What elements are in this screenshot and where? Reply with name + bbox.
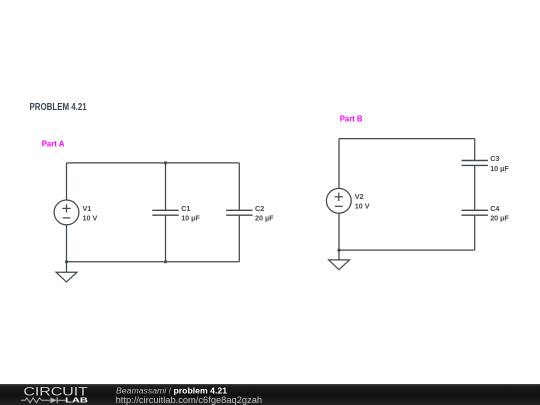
wire: V1 bottom lead	[66, 225, 68, 262]
svg-text:10 V: 10 V	[83, 214, 98, 223]
svg-text:Beamassami / problem 4.21: Beamassami / problem 4.21	[116, 386, 227, 396]
svg-text:20 µF: 20 µF	[255, 214, 274, 223]
wire: Part B top rail	[339, 138, 475, 140]
wire: C1 bottom lead	[165, 215, 167, 262]
svg-text:http://circuitlab.com/c6fge8aq: http://circuitlab.com/c6fge8aq2gzah	[116, 395, 263, 405]
wire: C1 top lead	[165, 163, 167, 210]
svg-text:PROBLEM 4.21: PROBLEM 4.21	[30, 102, 88, 113]
junction dot: C1 bottom node	[164, 260, 167, 263]
svg-text:10 V: 10 V	[355, 202, 370, 211]
label C2 value	[255, 204, 274, 223]
svg-text:C2: C2	[255, 204, 264, 213]
label C3 value	[490, 154, 509, 173]
svg-text:LAB: LAB	[65, 395, 89, 404]
wire: Part A top rail	[67, 162, 240, 164]
voltage source V1	[54, 200, 79, 225]
wire: Part B bottom rail	[339, 249, 475, 251]
wire: C2 bottom lead	[238, 215, 240, 262]
label C4 value	[490, 204, 509, 223]
capacitor C3	[462, 161, 488, 166]
wire: V2 top lead	[338, 139, 340, 189]
capacitor C2	[226, 210, 252, 215]
wire: Part A bottom rail	[67, 261, 240, 263]
wire: C4 bottom lead	[474, 215, 476, 250]
svg-text:C1: C1	[181, 204, 190, 213]
wire: V1 top lead	[66, 163, 68, 200]
svg-text:V2: V2	[355, 192, 364, 201]
voltage source V2	[326, 188, 351, 213]
logo diode lead	[58, 399, 66, 401]
svg-text:Part A: Part A	[42, 139, 65, 149]
junction dot: Part B ground node	[337, 249, 340, 252]
svg-text:C3: C3	[490, 154, 499, 163]
ground: Part A	[56, 262, 77, 282]
junction dot: Part A ground node	[65, 260, 68, 263]
svg-text:20 µF: 20 µF	[490, 214, 509, 223]
svg-text:10 µF: 10 µF	[181, 214, 200, 223]
wire: V2 bottom lead	[338, 213, 340, 250]
label C1 value	[181, 204, 200, 223]
wire: C3-C4 middle lead	[474, 165, 476, 210]
footer bar	[0, 384, 540, 405]
capacitor C4	[462, 210, 488, 215]
logo resistor symbol	[21, 398, 50, 403]
logo diode symbol	[50, 397, 57, 403]
svg-text:10 µF: 10 µF	[490, 164, 509, 173]
wire: C3 top lead	[474, 139, 476, 161]
ground: Part B	[329, 250, 350, 270]
wire: C2 top lead	[238, 163, 240, 210]
label V2 value	[355, 192, 370, 211]
svg-text:Part B: Part B	[340, 114, 363, 124]
capacitor C1	[152, 210, 178, 215]
svg-text:C4: C4	[490, 204, 499, 213]
label V1 value	[83, 204, 98, 223]
junction dot: C1 top node	[164, 161, 167, 164]
svg-text:V1: V1	[83, 204, 92, 213]
